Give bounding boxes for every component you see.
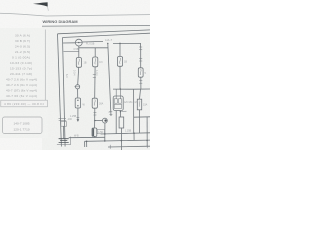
drop to fuse column B [94, 48, 96, 57]
connector ticks top right [139, 47, 142, 50]
wire right of circle to label [82, 40, 103, 43]
left connector stub [64, 51, 79, 53]
battery [59, 139, 69, 143]
fuse E right column [138, 68, 143, 77]
left legend text rows [6, 34, 37, 99]
fuse D [117, 57, 122, 67]
frame outer top [58, 30, 151, 34]
battery feed wire [69, 136, 105, 138]
junction dot D [119, 43, 121, 45]
connector circle A [76, 85, 80, 89]
circuit [57, 30, 150, 150]
left drop to battery [63, 126, 65, 136]
wire label to corner [113, 43, 141, 49]
relay box [113, 96, 123, 111]
lower wire bus [79, 46, 108, 58]
fuse A [76, 58, 81, 68]
A/C label box [97, 130, 104, 134]
arrow below switch [77, 108, 79, 119]
condenser on fuse column [92, 128, 97, 136]
wide legend box [1, 100, 48, 107]
title underline [42, 24, 150, 27]
wire fuse B down [94, 67, 96, 98]
frame hash marks [59, 119, 67, 121]
left legend column separator [44, 30, 46, 101]
switch box A [75, 98, 80, 108]
bottom bus 3 [108, 145, 150, 148]
connector small box [61, 122, 67, 127]
page corner wedge [33, 2, 48, 6]
fuse B [93, 57, 98, 67]
drop column C long wire [108, 44, 111, 117]
drop column D [119, 43, 121, 56]
relay top connector line [113, 88, 134, 90]
scan noise overlay [0, 0, 1, 1]
frame outer left vertical [58, 34, 62, 147]
relay outputs [116, 111, 120, 134]
fuse 30A [92, 98, 97, 108]
page top edge line [0, 13, 150, 16]
fuse in big box [137, 99, 141, 110]
wire fuse A down [78, 67, 79, 84]
lower fuse column [119, 117, 124, 128]
ignition fusible link circle [75, 39, 82, 46]
diagram page tint [42, 26, 150, 150]
frame inner left vertical [63, 38, 66, 147]
wire fuse D down to relay [119, 66, 121, 89]
page background [0, 0, 150, 150]
wire: feed from frame to circle [63, 42, 75, 44]
big right box [134, 89, 150, 133]
rounded legend box with two rows [3, 117, 43, 134]
right column verticals [140, 49, 142, 89]
motor connector [95, 120, 103, 122]
bottom bus 1 [101, 133, 150, 134]
tiny labels [65, 39, 148, 137]
bottom bus 2 [85, 140, 150, 141]
junction dots bottom [104, 133, 106, 135]
bottom verticals [85, 141, 87, 147]
frame inner top [63, 33, 151, 37]
